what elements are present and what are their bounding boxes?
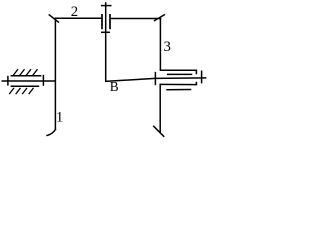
svg-text:1: 1 (56, 110, 63, 126)
svg-text:2: 2 (71, 4, 78, 20)
svg-text:B: B (110, 79, 119, 94)
svg-text:3: 3 (164, 39, 171, 55)
